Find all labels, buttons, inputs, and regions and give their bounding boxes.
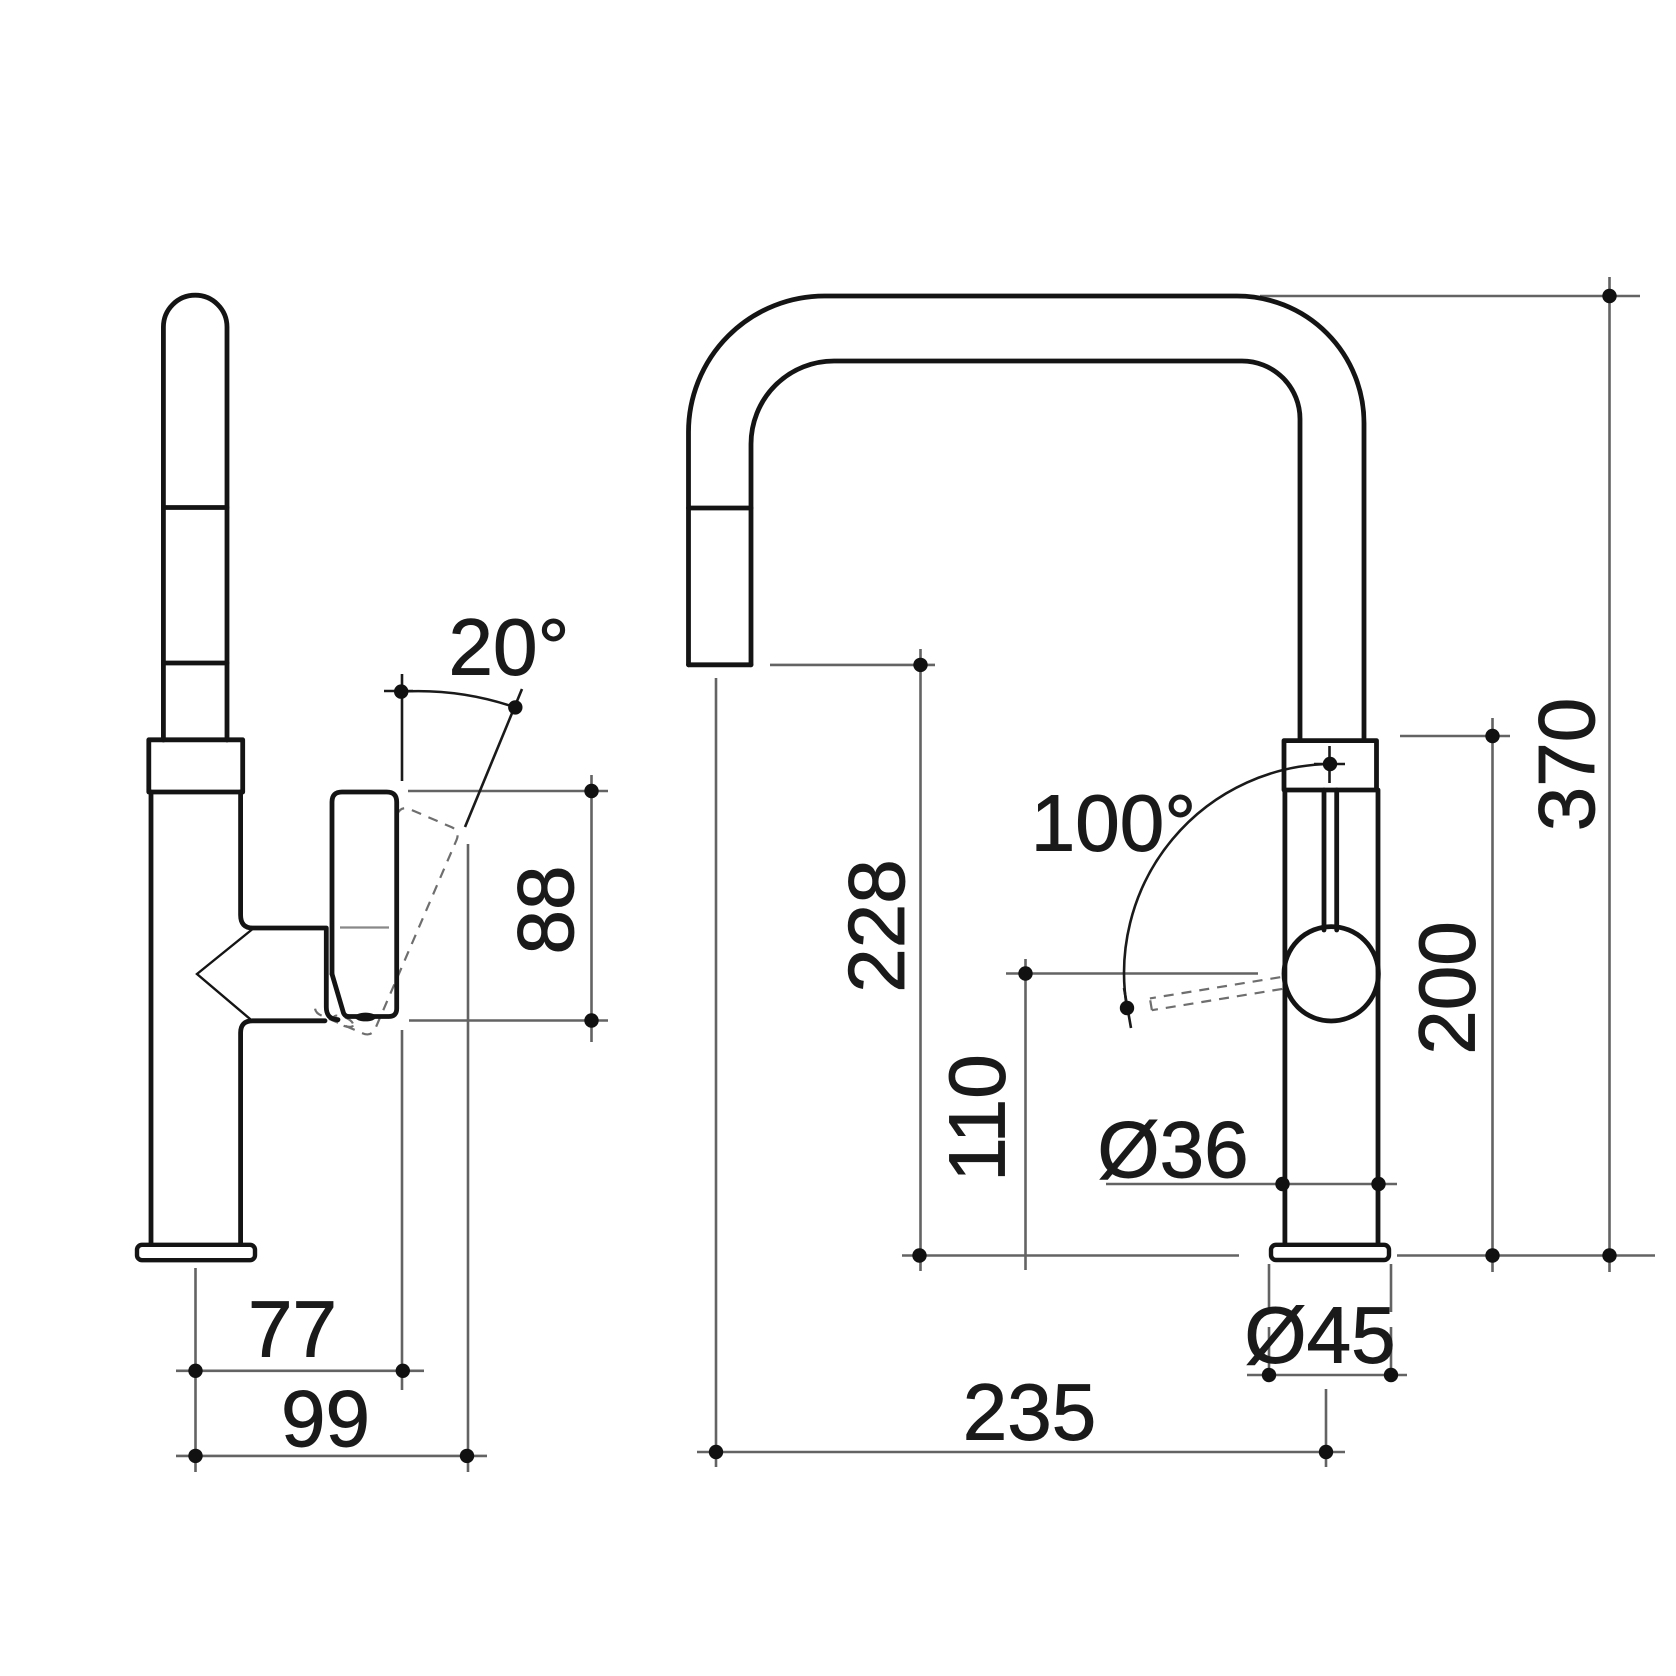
svg-text:200: 200 — [1402, 921, 1491, 1054]
svg-text:228: 228 — [832, 859, 921, 992]
svg-text:Ø45: Ø45 — [1244, 1291, 1395, 1380]
svg-text:100°: 100° — [1031, 779, 1196, 868]
svg-text:370: 370 — [1522, 698, 1611, 831]
svg-text:235: 235 — [963, 1368, 1096, 1457]
svg-text:77: 77 — [248, 1285, 337, 1374]
svg-text:99: 99 — [281, 1374, 370, 1463]
svg-text:110: 110 — [932, 1054, 1021, 1182]
svg-text:88: 88 — [501, 866, 590, 955]
svg-text:Ø36: Ø36 — [1097, 1105, 1248, 1194]
svg-text:20°: 20° — [449, 603, 570, 692]
